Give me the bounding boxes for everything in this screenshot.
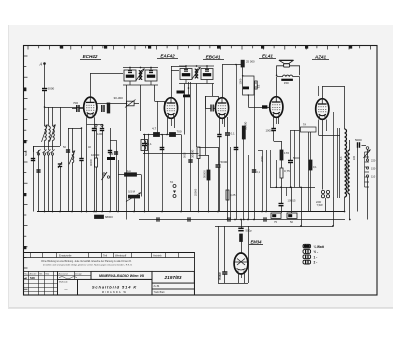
padder capacitor — [31, 159, 35, 161]
ECH42 cathode wire down — [94, 131, 96, 212]
speaker right lead — [290, 66, 300, 76]
speaker left lead — [277, 66, 284, 76]
supply vert 1 — [281, 187, 283, 203]
screen bypass cap — [160, 148, 165, 150]
EL41 pin stub mid — [276, 117, 278, 124]
EBC41 pin wire 2 — [224, 118, 226, 127]
coupling network box — [243, 76, 254, 95]
voltage tap 220 — [366, 159, 368, 161]
title strip — [24, 252, 195, 295]
svg-text:25000: 25000 — [194, 188, 198, 196]
tube label AZ41 underline — [312, 59, 329, 61]
supply vert 1b — [281, 206, 283, 213]
plate load resistor 25000 — [241, 60, 244, 67]
electrolytic capacitor 50 — [287, 213, 297, 218]
svg-text:0,1: 0,1 — [313, 165, 317, 169]
osc switch circles — [102, 172, 110, 180]
svg-text:0,1: 0,1 — [231, 132, 236, 136]
EM34 left branch — [224, 226, 226, 272]
IFT2 mid down wire — [196, 84, 198, 148]
mains wire down — [367, 177, 369, 220]
EL41 grid wire — [248, 107, 269, 109]
antenna wire to coil — [44, 91, 46, 127]
wire L3 down — [72, 163, 74, 212]
wire between stoppers — [160, 134, 170, 136]
svg-text:170: 170 — [284, 151, 289, 155]
svg-text:700: 700 — [73, 101, 78, 105]
wire above L2 — [52, 107, 54, 126]
sub box 1 — [152, 283, 194, 289]
ECH42 grid capacitor 700 — [73, 101, 79, 112]
wire 48 to bus — [48, 155, 50, 212]
OPT tap wire — [291, 130, 300, 132]
svg-text:40000: 40000 — [90, 158, 93, 166]
svg-text:¼ Watt: ¼ Watt — [314, 245, 325, 249]
IFT1 left down wire — [126, 85, 128, 104]
svg-text:Ohne Bindung ist eine Bindung.: Ohne Bindung ist eine Bindung. Jede Verv… — [41, 260, 132, 263]
svg-text:Zu Bl.: Zu Bl. — [154, 285, 161, 288]
junction chassis — [300, 225, 302, 227]
tone cap wire — [290, 130, 292, 160]
EAF42 plate to IFT2 — [171, 66, 173, 97]
ECH42 plate wire right — [90, 73, 123, 75]
vert wire 48 stub — [48, 107, 50, 126]
EM34 left branch down — [224, 275, 226, 284]
svg-text:400: 400 — [109, 153, 114, 156]
coil box top wire — [144, 135, 146, 140]
svg-text:Antrieb: Antrieb — [153, 253, 162, 257]
vert 333 upper — [333, 112, 335, 197]
TA box wire — [308, 132, 310, 212]
AVC bus — [139, 219, 345, 221]
vert 110 top — [110, 128, 112, 150]
svg-text:700: 700 — [177, 130, 182, 134]
svg-text:0,1: 0,1 — [257, 171, 261, 174]
EM34 pin stub mid — [241, 274, 243, 278]
junction EM34 bus — [240, 219, 242, 221]
pickup jack TA — [173, 185, 176, 198]
long vert 126.5 — [126, 104, 128, 220]
oscillator grid resistor 10000 — [91, 153, 100, 167]
osc cap 102 — [100, 129, 104, 131]
band switch contact S1 — [43, 150, 47, 156]
grid horiz 205 — [205, 96, 213, 98]
voltage tap 150 — [366, 167, 368, 169]
EM34 grid resistor — [240, 234, 243, 242]
tuning capacitor CT1 — [58, 162, 62, 168]
tuning wire — [60, 107, 62, 146]
junction coupling bottom — [248, 94, 250, 96]
junction screen — [161, 134, 163, 136]
det horiz wire — [199, 155, 209, 157]
svg-text:5000: 5000 — [184, 152, 187, 158]
svg-text:5000: 5000 — [221, 160, 228, 164]
wire 144 down — [144, 146, 146, 212]
svg-text:5000: 5000 — [293, 156, 300, 160]
IFT2 secondary down — [212, 84, 214, 97]
B+ rail horizontal — [270, 187, 315, 189]
svg-text:0,5 M: 0,5 M — [128, 190, 136, 194]
EM34 pin down 1 — [238, 274, 240, 284]
diode load resistor 1m — [125, 173, 137, 176]
EBC41 plate resistor — [242, 126, 245, 139]
bias resistor 0,75 — [280, 168, 290, 178]
long vert 205 — [205, 96, 207, 155]
wire below L1 — [44, 140, 46, 150]
svg-text:4,7: 4,7 — [152, 127, 157, 131]
svg-text:MINERVA-RADIO Wien VII: MINERVA-RADIO Wien VII — [99, 274, 145, 278]
AF resistor 50000 — [207, 170, 210, 180]
antenna coil L1 — [42, 125, 48, 142]
svg-text:EBC41: EBC41 — [206, 55, 221, 60]
cap at 236 — [234, 148, 239, 150]
EAF42 pin wire right — [174, 118, 176, 128]
res 10000 up — [96, 128, 98, 158]
long vert 236b — [243, 126, 245, 139]
AF resistor 0,25 — [226, 190, 229, 200]
voltage selector switch — [364, 147, 371, 158]
plate res down wire — [243, 139, 245, 220]
svg-text:Design: Design — [75, 273, 83, 275]
transformer secondary top lead — [349, 140, 351, 150]
ECH42 oscillator anode resistor — [107, 103, 110, 113]
long vert 318 — [318, 120, 320, 136]
vert wire 68 — [68, 128, 70, 212]
diode return wire — [143, 153, 199, 155]
EBC41 grid stopper wire — [214, 108, 216, 110]
res 30000 down — [198, 159, 200, 212]
chassis right vert — [301, 187, 303, 226]
svg-text:TA: TA — [170, 180, 173, 184]
vert 310 b — [310, 132, 312, 212]
EBC41 plate top wire — [222, 65, 224, 98]
osc vert 116 — [116, 140, 118, 212]
IFT2 left down wire — [184, 84, 186, 135]
res 10000 down — [96, 167, 98, 212]
svg-text:0,25: 0,25 — [230, 193, 236, 197]
lower bus — [215, 226, 333, 228]
electrolytic capacitor 75 — [271, 213, 281, 218]
EAF42 pin stub mid — [171, 118, 173, 126]
wire CT1 down — [60, 167, 62, 212]
junction plate wire — [235, 64, 237, 66]
wire 1m right — [137, 174, 142, 176]
oscillator feedback coil L3 — [69, 151, 75, 165]
left cap 33 top — [33, 146, 35, 152]
tube label EL41 underline — [259, 58, 276, 60]
cap at 116 — [114, 152, 118, 154]
tube label EBC41 underline — [203, 59, 224, 61]
Schaltbild box — [78, 279, 153, 295]
svg-text:68000: 68000 — [105, 215, 113, 219]
wire 144 up — [144, 135, 146, 144]
junction osc link — [81, 127, 83, 129]
AVC bus capacitor 4 — [264, 217, 266, 221]
EBC41 grid leak resistor 30000 — [191, 147, 201, 159]
horiz link 68 — [68, 128, 72, 130]
screen feed resistor 700 — [170, 130, 182, 137]
signature box — [58, 271, 92, 279]
EM34 pin down 2 — [244, 274, 246, 284]
detector/AF tube EBC41 — [215, 98, 228, 119]
svg-text:0,75: 0,75 — [284, 169, 290, 173]
wire L3 up — [72, 128, 74, 152]
wire cap700 left — [72, 108, 77, 110]
AF capacitor 5000b — [216, 160, 228, 167]
AZ41 pin stub — [326, 120, 328, 132]
junction right bus — [332, 225, 334, 227]
long vert 148 — [148, 135, 150, 212]
tube label EAF42 underline — [157, 58, 178, 60]
EM34 wire from bus — [241, 220, 243, 229]
svg-text:1m: 1m — [127, 169, 132, 173]
EM34 wire 218 — [218, 226, 220, 283]
pot wire down — [134, 199, 136, 212]
OPT right wire — [293, 76, 300, 78]
IFT1 grid wire — [155, 101, 165, 103]
svg-text:Werkstoff: Werkstoff — [115, 253, 127, 257]
long vert 266 — [266, 150, 268, 212]
wire 181 down — [181, 135, 183, 212]
junction stopper — [166, 134, 168, 136]
osc cap wire down — [81, 161, 83, 212]
svg-text:30000: 30000 — [244, 121, 248, 130]
osc dark bar — [107, 157, 115, 160]
coupling capacitor bar — [243, 87, 250, 90]
EM34 grid capacitor 500p — [238, 228, 243, 230]
rectifier tube AZ41 — [316, 99, 329, 120]
svg-text:1200: 1200 — [97, 132, 103, 136]
svg-text:50000: 50000 — [203, 170, 207, 178]
supply vert 2 — [291, 187, 293, 213]
dash box — [58, 279, 78, 295]
svg-text:Teil: Teil — [103, 253, 107, 257]
filter cap wire — [362, 145, 367, 147]
selector common wire — [367, 149, 369, 159]
mains transformer primary winding — [345, 129, 347, 197]
svg-text:Schaltbild 514 K: Schaltbild 514 K — [92, 285, 138, 290]
svg-text:100/15: 100/15 — [288, 199, 296, 203]
junction 96 128 — [95, 127, 97, 129]
legend resistor pill 2 — [303, 250, 311, 254]
cath join wire — [274, 141, 282, 143]
svg-text:Ausstand: Ausstand — [59, 272, 69, 275]
EL41 cathode capacitor 10000 — [271, 129, 276, 131]
mains transformer core — [338, 128, 340, 198]
svg-text:ECH42: ECH42 — [83, 54, 98, 59]
fuse wire down — [325, 198, 327, 212]
grid wire to ECH42 — [60, 107, 84, 109]
wire 141 vert — [141, 175, 143, 197]
legend resistor pill 3 — [303, 255, 311, 259]
wire S1 to ground bus — [44, 155, 46, 212]
mains transformer secondary winding — [348, 150, 350, 194]
output tube EL41 — [270, 97, 283, 118]
triode-hexode tube ECH42 — [84, 97, 97, 118]
switch contact 48 — [47, 150, 51, 156]
EBC41 grid stopper wire left — [205, 108, 211, 110]
resistor at 310 — [309, 160, 312, 170]
AVC bus capacitor 2 — [188, 217, 190, 221]
svg-text:25 000: 25 000 — [246, 60, 255, 64]
cap at 190 mid — [188, 160, 192, 162]
svg-text:5000: 5000 — [25, 150, 28, 156]
ground bus resistor 68000 — [95, 215, 104, 218]
transformer bottom lead 1 — [344, 197, 346, 212]
long vert 270 — [270, 150, 272, 187]
left link wire — [33, 146, 60, 148]
wire S2 to ground bus — [52, 155, 54, 212]
screen wire top — [162, 135, 164, 148]
oscillator capacitor — [79, 159, 83, 161]
band switch contact S2 — [51, 150, 55, 156]
EBC41 grid stopper capacitor — [211, 105, 213, 112]
svg-text:Maßstab: Maßstab — [59, 280, 68, 283]
svg-text:150: 150 — [284, 81, 289, 85]
cap at 110 — [108, 151, 112, 153]
EL41 cathode pin right — [278, 117, 280, 124]
AZ41 heater link — [319, 135, 341, 137]
IF transformer IFT2 — [179, 65, 214, 83]
heater link — [87, 124, 103, 126]
cath cap down — [273, 131, 275, 141]
OPT lead down left — [276, 77, 278, 97]
vert 102 — [102, 124, 104, 128]
legend resistor pill 4 — [303, 260, 311, 264]
ground bus — [37, 211, 345, 213]
svg-text:EAF42: EAF42 — [160, 54, 175, 59]
svg-text:1 M: 1 M — [72, 154, 75, 158]
AVC bus capacitor 3 — [228, 217, 230, 221]
switch contact left — [37, 150, 41, 156]
long vert 294 — [294, 130, 296, 187]
EM34 wire to tube — [241, 242, 243, 254]
long vert 157 — [157, 101, 159, 135]
IF transformer IFT1 — [123, 67, 158, 85]
EBC41 coupling capacitor 0,1 — [225, 132, 235, 136]
junction 144 — [144, 134, 146, 136]
svg-text:AZ41: AZ41 — [314, 55, 327, 60]
volume potentiometer 0,5M — [126, 193, 141, 202]
AZ41 anode top wire — [322, 86, 324, 99]
screen wire EAF42 — [162, 147, 164, 212]
EBC41 cathode down — [219, 137, 221, 212]
left trimmer cap — [36, 170, 40, 172]
transformer HV lead — [344, 86, 346, 129]
svg-text:EL41: EL41 — [262, 54, 273, 59]
svg-text:EM34: EM34 — [251, 239, 263, 244]
coupling cap wire up — [227, 117, 229, 133]
wire 700 right — [176, 134, 182, 136]
IFT1 secondary to EAF42 grid — [154, 85, 156, 101]
vert 102 down — [102, 131, 104, 212]
mains filter capacitor 5000 — [355, 138, 362, 148]
EAF42 bypass capacitor 0,1 — [142, 142, 152, 146]
EAF42 grid entry — [164, 101, 166, 105]
osc cap wire up — [81, 128, 83, 158]
EBC41 pin wire 1 — [219, 118, 221, 134]
AZ41 anode stub — [318, 86, 320, 96]
AZ41 cathode down wire — [322, 119, 324, 189]
long vert 230 — [230, 147, 232, 220]
antenna capacitor 6000 — [42, 87, 55, 91]
wire 50000 down — [208, 180, 210, 212]
filter electrolytic 1 — [279, 204, 284, 206]
top ruler tick marks — [28, 45, 370, 49]
fuse lamp contacts — [321, 190, 329, 197]
under IFT2 wire — [188, 82, 190, 97]
transformer tap dashes — [365, 152, 370, 187]
svg-text:548: 548 — [30, 276, 35, 280]
voltage tap 110 — [366, 175, 368, 177]
coil box bottom wire — [144, 151, 146, 154]
bus junction dots — [44, 186, 351, 220]
long vert 286 — [286, 187, 288, 196]
tube label ECH42 underline — [80, 59, 101, 61]
diode load resistor b — [183, 95, 190, 98]
svg-text:di stellen und sind gesendet e: di stellen und sind gesendet erfolgt, gl… — [43, 264, 133, 267]
wire 218 up — [218, 147, 220, 165]
speaker cone — [279, 60, 294, 67]
junction under IFT2 — [188, 87, 190, 89]
parts table — [24, 271, 58, 295]
EAF42 plate wire right — [171, 70, 179, 72]
coupling cap wire down — [227, 136, 229, 220]
osc link wire — [72, 128, 82, 130]
AVC bus capacitor 1 — [157, 217, 159, 221]
wire 0,75 down — [281, 178, 283, 187]
TA terminal box — [301, 127, 317, 132]
svg-text:2197/83: 2197/83 — [164, 275, 182, 280]
svg-text:10000: 10000 — [91, 153, 100, 157]
switch ladder wire — [364, 152, 366, 187]
svg-text:75 300: 75 300 — [218, 272, 222, 280]
EBC41 pin stub mid — [222, 118, 224, 124]
svg-text:A: A — [39, 62, 43, 67]
ECH42 mixer output wire — [97, 103, 127, 105]
svg-text:6000: 6000 — [48, 87, 55, 91]
svg-text:220: 220 — [371, 159, 376, 163]
left ruler tick marks — [23, 56, 28, 289]
diode filter coil box — [141, 140, 148, 151]
antenna lead wire — [44, 64, 46, 89]
leftmost vertical wire — [33, 146, 35, 212]
B+ wire right side — [299, 77, 301, 188]
tube label EM34 underline — [249, 244, 263, 246]
cap at 254 mid — [252, 170, 256, 172]
vert 276 bus — [276, 160, 278, 187]
ECH42 cathode capacitor — [92, 129, 96, 131]
EAF42 heater wire — [167, 134, 169, 136]
HT wire to transformer — [322, 86, 344, 88]
EBC41 plate horiz — [222, 64, 243, 66]
IFT2 grid wire — [213, 96, 219, 98]
EAF42 plate wire right b — [171, 66, 186, 68]
svg-text:EZ: EZ — [257, 84, 261, 88]
junction 148 — [148, 134, 150, 136]
EAF42 pin wire left — [167, 118, 169, 135]
ECH42 plate to IFT1 — [90, 73, 92, 97]
IFT1 junction — [126, 103, 128, 105]
svg-text:7,5W: 7,5W — [317, 203, 324, 207]
EL41 grid return — [258, 150, 262, 152]
stopper wire left — [143, 134, 154, 136]
junction coupling top — [242, 75, 244, 77]
ECH42 pin wire 1 — [86, 117, 88, 128]
svg-text:Ersatzteile: Ersatzteile — [59, 253, 72, 257]
EL41 cathode pin left — [273, 117, 275, 128]
osc contact circles top — [95, 124, 103, 126]
